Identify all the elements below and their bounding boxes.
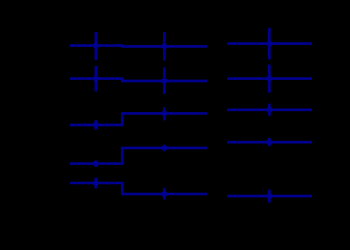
- errorbar series3 point3: [268, 104, 271, 116]
- marker series2 point2 diamond: [160, 77, 169, 84]
- marker series2 point3 diamond: [265, 75, 274, 82]
- marker series2 point1 diamond: [91, 75, 100, 82]
- marker series4 point2 diamond: [160, 144, 169, 151]
- errorbar series2 point3: [268, 65, 271, 93]
- marker series1 point2 diamond: [160, 43, 169, 50]
- errorbar series5 point1: [95, 178, 98, 189]
- wire series3 line bin 3: [227, 109, 312, 112]
- errorbar series3 point2: [163, 107, 166, 120]
- marker series5 point3 diamond: [265, 192, 274, 199]
- errorbar series2 point1: [95, 66, 98, 92]
- marker series3 point1 diamond: [91, 121, 100, 128]
- marker series4 point1 diamond: [91, 160, 100, 167]
- marker series5 point2 diamond: [160, 190, 169, 197]
- marker series1 point3 diamond: [265, 40, 274, 47]
- errorbar series2 point2: [163, 67, 166, 94]
- wire series1 stepped line bins 1-2: [70, 44, 207, 47]
- wire series4 stepped line bins 1-2: [70, 148, 207, 164]
- errorbar series3 point1: [95, 120, 98, 129]
- marker series4 point3 diamond: [265, 139, 274, 146]
- marker series1 point1 diamond: [91, 42, 100, 49]
- marker series5 point1 diamond: [91, 179, 100, 186]
- errorbar series1 point1: [95, 32, 98, 60]
- errorbar series4 point3: [268, 138, 271, 146]
- wire series3 stepped line bins 1-2: [70, 113, 207, 125]
- errorbar series5 point3: [268, 190, 271, 203]
- wire series2 line bin 3: [227, 77, 312, 80]
- errorbar series1 point3: [268, 28, 271, 60]
- wire series5 stepped line bins 1-2: [70, 183, 207, 194]
- marker series3 point3 diamond: [265, 106, 274, 113]
- errorbar series1 point2: [163, 32, 166, 61]
- wire series5 line bin 3: [227, 195, 312, 198]
- marker series3 point2 diamond: [160, 110, 169, 117]
- errorbar series5 point2: [163, 188, 166, 200]
- wire series1 line bin 3: [227, 42, 312, 45]
- wire series4 line bin 3: [227, 141, 312, 144]
- wire series2 stepped line bins 1-2: [70, 79, 207, 81]
